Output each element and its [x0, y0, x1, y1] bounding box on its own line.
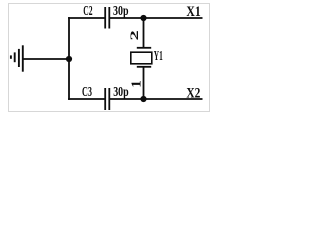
- svg-text:1: 1: [130, 80, 145, 88]
- wire top middle segment: [110, 17, 144, 19]
- wire top right segment: [144, 17, 203, 19]
- wire left rail vertical: [68, 18, 70, 99]
- wire bottom left segment: [69, 98, 104, 100]
- capacitor C3: [105, 88, 109, 110]
- svg-text:X2: X2: [186, 85, 200, 101]
- svg-text:2: 2: [127, 30, 141, 40]
- wire bottom right segment: [144, 98, 203, 100]
- capacitor C2: [105, 7, 109, 29]
- svg-text:C2: C2: [83, 3, 92, 18]
- svg-text:30p: 30p: [113, 84, 129, 99]
- junction top wire / crystal: [140, 15, 146, 21]
- junction rail/ground: [66, 56, 72, 62]
- wire crystal top pin: [143, 18, 145, 48]
- svg-text:30p: 30p: [113, 3, 129, 18]
- wire bottom middle segment: [110, 98, 144, 100]
- wire crystal bottom pin: [143, 67, 145, 99]
- svg-text:C3: C3: [82, 84, 92, 99]
- junction bottom wire / crystal: [140, 96, 146, 102]
- svg-text:Y1: Y1: [154, 49, 163, 64]
- svg-text:X1: X1: [186, 4, 200, 20]
- ground: [11, 45, 23, 71]
- crystal Y1: [131, 48, 152, 67]
- wire ground to rail: [23, 58, 69, 60]
- wire top left segment: [69, 17, 104, 19]
